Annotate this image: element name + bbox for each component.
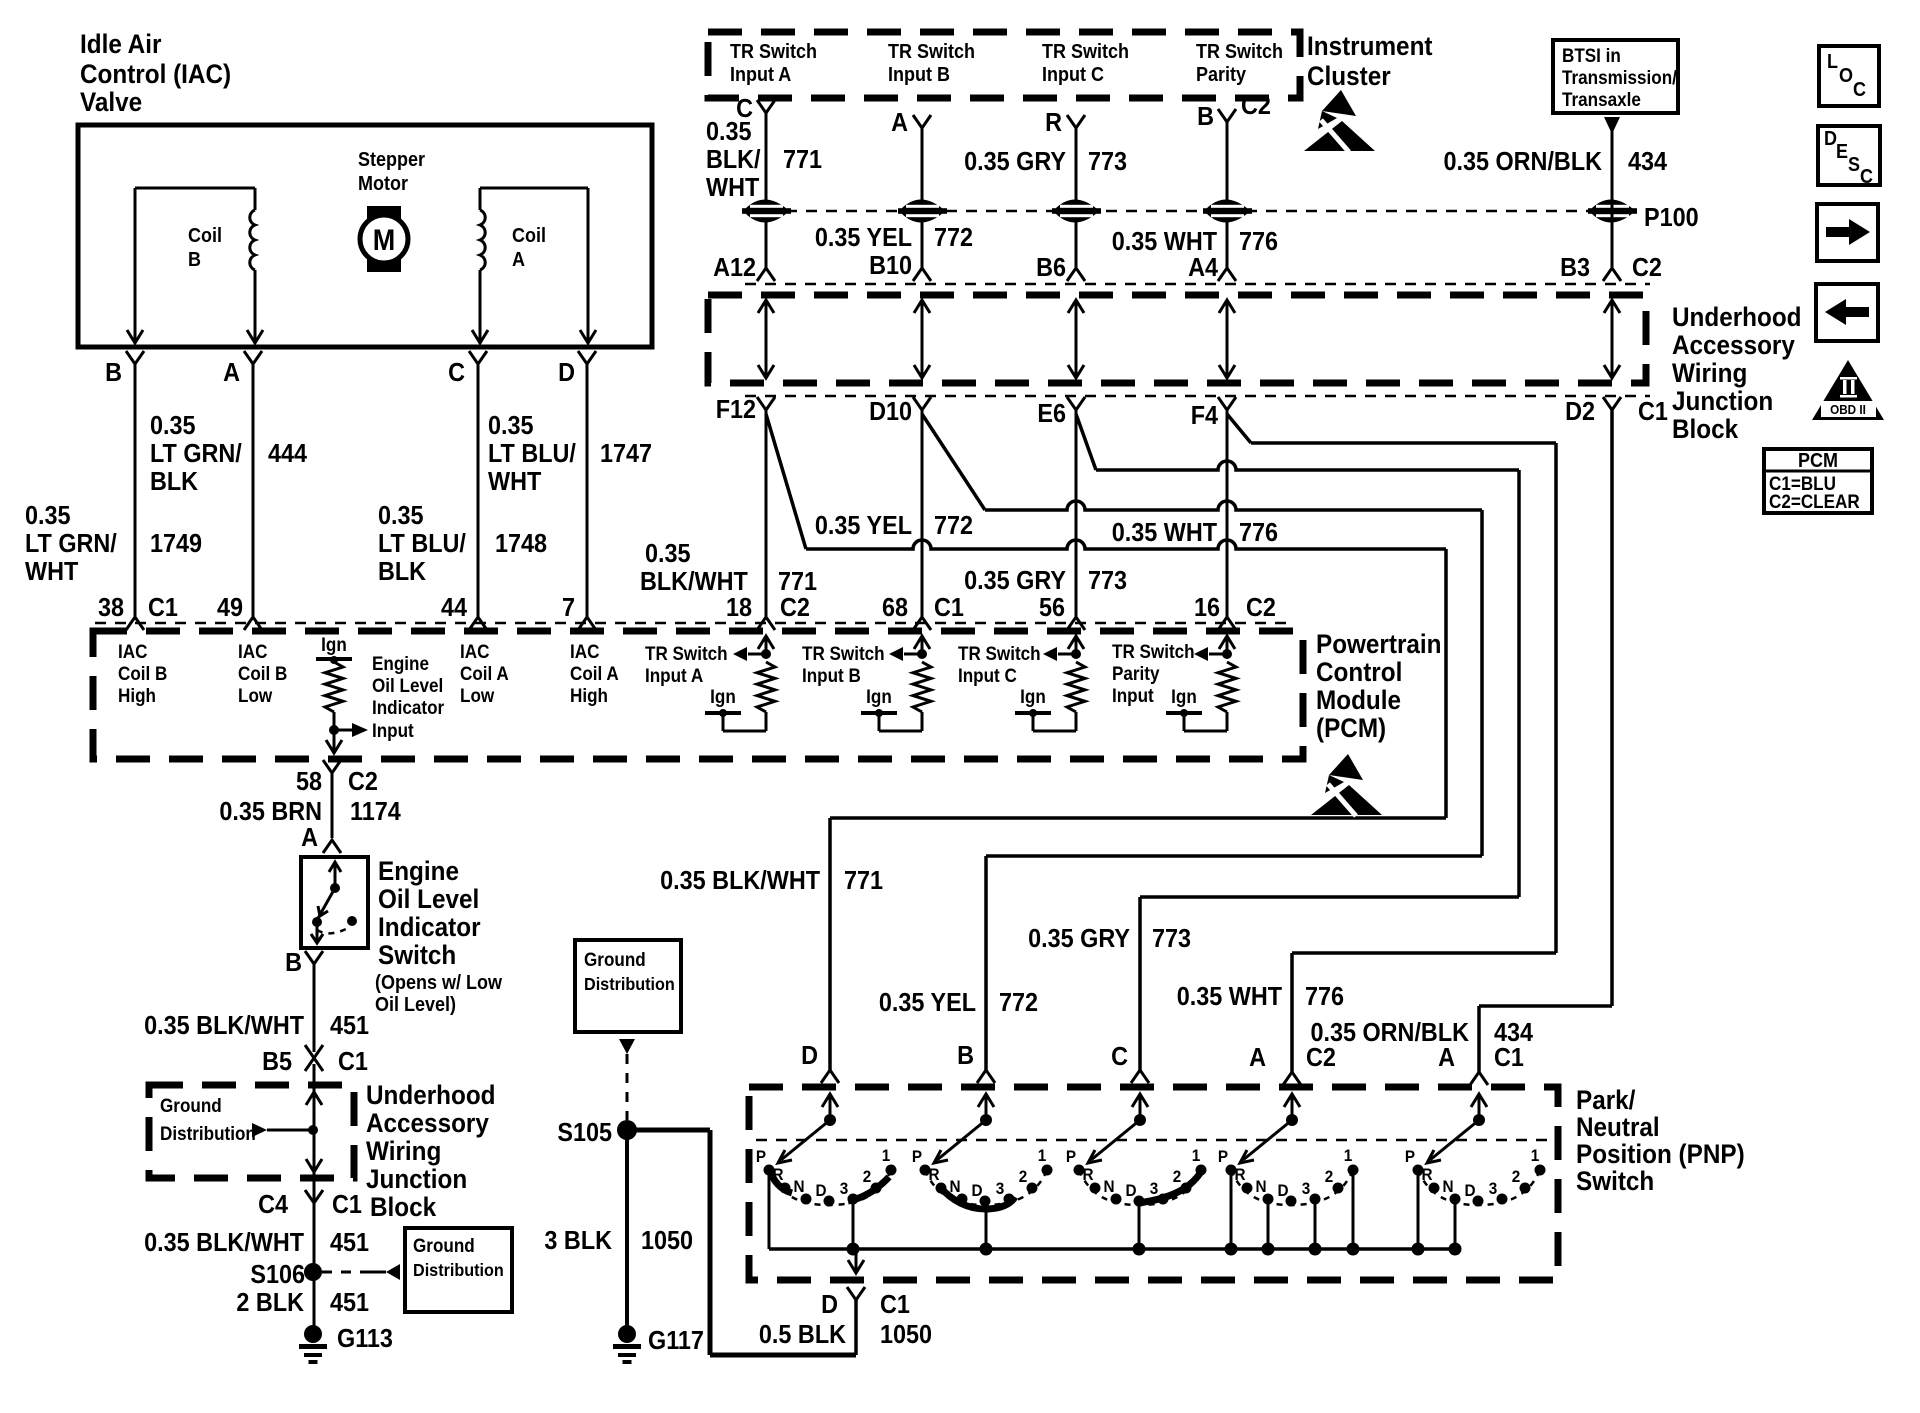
svg-text:68: 68 (882, 594, 908, 622)
svg-text:772: 772 (999, 989, 1038, 1017)
svg-text:Idle Air: Idle Air (80, 30, 161, 59)
svg-text:771: 771 (783, 146, 822, 174)
svg-text:High: High (570, 685, 608, 706)
coil B (135, 188, 255, 318)
svg-text:16: 16 (1194, 594, 1220, 622)
svg-text:Ground: Ground (584, 949, 646, 970)
svg-text:Control: Control (1316, 658, 1402, 687)
svg-text:1749: 1749 (150, 530, 202, 558)
svg-text:P100: P100 (1644, 204, 1699, 232)
svg-text:773: 773 (1088, 148, 1127, 176)
svg-text:R: R (1082, 1165, 1093, 1184)
svg-text:0.35 WHT: 0.35 WHT (1112, 228, 1217, 256)
svg-text:Position (PNP): Position (PNP) (1576, 1140, 1745, 1169)
cluster label TR Switch Input A (730, 41, 817, 86)
ground G113 (299, 1325, 393, 1364)
label 3 BLK 1050 (544, 1227, 693, 1255)
svg-text:Cluster: Cluster (1307, 62, 1391, 91)
cluster pin B (1197, 103, 1236, 131)
svg-text:58: 58 (296, 768, 322, 796)
svg-text:TR Switch: TR Switch (1196, 41, 1283, 63)
wire E6 to PCM pin 56 (1075, 410, 1078, 617)
svg-text:A: A (1249, 1044, 1266, 1072)
svg-text:1748: 1748 (495, 530, 547, 558)
label 0.35 BLK/WHT 451 (lower) (144, 1229, 369, 1257)
OBD II icon (1812, 360, 1884, 420)
svg-text:IAC: IAC (460, 641, 489, 662)
svg-text:434: 434 (1628, 148, 1667, 176)
PCM label IAC Coil B Low (238, 641, 287, 706)
svg-text:C1: C1 (1494, 1044, 1524, 1072)
svg-text:Indicator: Indicator (378, 913, 481, 942)
svg-text:LT GRN/: LT GRN/ (150, 440, 242, 468)
svg-text:49: 49 (217, 594, 243, 622)
svg-text:D: D (1125, 1181, 1136, 1200)
svg-text:1050: 1050 (880, 1321, 932, 1349)
svg-text:R: R (1045, 109, 1062, 137)
PNP pin A C1 (1438, 1044, 1524, 1085)
svg-text:Input B: Input B (888, 64, 950, 86)
connector D C1 (PNP ground) (821, 1287, 910, 1319)
svg-text:O: O (1839, 65, 1853, 87)
PNP switch contact set C (1066, 1094, 1207, 1256)
svg-text:C2: C2 (1241, 92, 1271, 120)
svg-text:Neutral: Neutral (1576, 1113, 1660, 1142)
svg-text:Oil Level): Oil Level) (375, 994, 456, 1016)
svg-text:Oil Level: Oil Level (378, 885, 479, 914)
wire F12 to PCM pin 18 (765, 410, 768, 617)
svg-text:0.35 GRY: 0.35 GRY (964, 148, 1066, 176)
svg-text:2: 2 (863, 1167, 872, 1186)
PCM label IAC Coil B High (118, 641, 167, 706)
wire IAC B to PCM pin 38 (134, 364, 137, 617)
Powertrain Control Module (PCM) title (1316, 630, 1442, 743)
switch pin B (285, 949, 323, 977)
svg-text:N: N (793, 1177, 804, 1196)
pin B10 (869, 252, 931, 281)
label 0.35 BLK/WHT 771 (left) (640, 540, 817, 596)
svg-text:Powertrain: Powertrain (1316, 630, 1442, 659)
junction block pass-through arrow (772) (914, 300, 930, 378)
PCM connector legend (1764, 449, 1872, 513)
ground G117 (613, 1325, 704, 1364)
ground distribution feed arrow (252, 1123, 318, 1137)
svg-text:Input: Input (1112, 685, 1154, 706)
svg-text:IAC: IAC (570, 641, 599, 662)
svg-text:Coil B: Coil B (118, 663, 167, 684)
pin D10 (869, 397, 931, 426)
svg-text:P: P (1405, 1147, 1415, 1166)
svg-text:1: 1 (1344, 1146, 1353, 1165)
svg-text:A: A (301, 824, 318, 852)
svg-text:1: 1 (882, 1146, 891, 1165)
cluster label TR Switch Input C (1042, 41, 1129, 86)
svg-text:S105: S105 (557, 1119, 612, 1147)
svg-text:3: 3 (1302, 1179, 1311, 1198)
svg-text:Input: Input (372, 720, 414, 741)
park/neutral position switch box (749, 1087, 1558, 1280)
svg-text:Coil B: Coil B (238, 663, 287, 684)
Instrument Cluster title (1307, 32, 1433, 91)
wire F4 to PCM pin 16 (1226, 410, 1229, 617)
LOC icon (1819, 46, 1879, 106)
labels 0.35 ORN/BLK 434 (PNP) (1310, 1019, 1533, 1047)
svg-text:Input B: Input B (802, 665, 861, 686)
svg-text:Engine: Engine (372, 653, 429, 674)
svg-text:Switch: Switch (378, 941, 456, 970)
svg-text:M: M (373, 224, 395, 258)
PCM TR switch input C group (958, 636, 1085, 731)
PCM TR switch input A group (645, 636, 775, 731)
svg-text:C2: C2 (1306, 1044, 1336, 1072)
svg-text:TR Switch: TR Switch (1042, 41, 1129, 63)
PCM label IAC Coil A Low (460, 641, 509, 706)
connector B5 C1 (262, 1045, 368, 1076)
svg-text:IAC: IAC (118, 641, 147, 662)
label 0.35 GRY 773 (mid) (964, 567, 1127, 595)
PNP switch contact set A (C1) (1405, 1094, 1546, 1256)
labels 0.35 GRY 773 (PNP) (1028, 925, 1191, 953)
svg-text:R: R (1234, 1165, 1245, 1184)
ESD symbol (instrument cluster) (1304, 90, 1375, 152)
svg-text:0.35 WHT: 0.35 WHT (1112, 519, 1217, 547)
svg-text:773: 773 (1152, 925, 1191, 953)
svg-text:WHT: WHT (706, 174, 759, 202)
pin F4 (1191, 397, 1236, 430)
pin B6 (1036, 254, 1085, 282)
Underhood Accessory Wiring Junction Block title (top) (1672, 303, 1802, 444)
PNP switch contact set B (912, 1094, 1053, 1256)
back arrow icon (1816, 284, 1878, 341)
Underhood Accessory Wiring Junction Block title (lower) (366, 1081, 496, 1222)
svg-text:BLK: BLK (378, 558, 426, 586)
svg-text:451: 451 (330, 1289, 369, 1317)
label 0.35 BLK/WHT 451 (upper) (144, 1012, 369, 1040)
svg-text:Switch: Switch (1576, 1167, 1654, 1196)
cluster label TR Switch Input B (888, 41, 975, 86)
wire cluster C to A12 (765, 113, 768, 268)
label 0.35 LT GRN/BLK 444 (150, 412, 307, 496)
svg-text:Coil: Coil (512, 225, 546, 247)
svg-text:C1: C1 (332, 1191, 362, 1219)
forward arrow icon (1817, 204, 1878, 261)
PNP pin D (801, 1042, 839, 1083)
svg-text:2 BLK: 2 BLK (236, 1289, 304, 1317)
svg-text:C1: C1 (1638, 398, 1668, 426)
svg-text:R: R (928, 1165, 939, 1184)
label 0.5 BLK 1050 (759, 1321, 932, 1349)
dashed wire to S105 (626, 1054, 629, 1120)
svg-text:P: P (912, 1147, 922, 1166)
svg-text:A: A (1438, 1044, 1455, 1072)
PCM pin 18 C2 (726, 594, 810, 630)
PCM oil level ign feed (316, 634, 352, 664)
svg-text:C: C (1860, 166, 1873, 188)
connector row dashed line (A12 row) (745, 283, 1650, 286)
svg-text:A: A (891, 109, 908, 137)
svg-text:776: 776 (1239, 228, 1278, 256)
svg-text:(Opens w/ Low: (Opens w/ Low (375, 972, 502, 994)
svg-text:0.35: 0.35 (645, 540, 691, 568)
svg-text:Ign: Ign (321, 634, 347, 655)
svg-text:A: A (223, 359, 240, 387)
svg-text:C2: C2 (348, 768, 378, 796)
label 0.35 BLK/WHT 771 (cluster) (706, 118, 822, 202)
oil level switch internals (311, 862, 357, 943)
IAC coil arrows to box edge (127, 318, 596, 343)
svg-text:N: N (1255, 1177, 1266, 1196)
svg-text:Input C: Input C (1042, 64, 1104, 86)
junction block pass-through arrow (451) (306, 1064, 322, 1203)
pin A12 (713, 254, 775, 282)
svg-text:Ign: Ign (1171, 686, 1197, 707)
DESC icon (1818, 126, 1880, 188)
svg-text:0.35: 0.35 (378, 502, 424, 530)
svg-text:TR Switch: TR Switch (802, 643, 885, 664)
svg-text:E6: E6 (1037, 400, 1066, 428)
PNP pin A C2 (1249, 1044, 1336, 1085)
pin B3 C2 (1560, 254, 1662, 282)
svg-text:0.35 GRY: 0.35 GRY (964, 567, 1066, 595)
svg-text:0.35 GRY: 0.35 GRY (1028, 925, 1130, 953)
S106 ground distribution reference (322, 1264, 400, 1280)
svg-text:S106: S106 (250, 1261, 305, 1289)
svg-text:Wiring: Wiring (1672, 359, 1747, 388)
junction block pass-through arrow (771) (758, 300, 774, 378)
svg-text:Transaxle: Transaxle (1562, 89, 1641, 110)
svg-text:D: D (1277, 1181, 1288, 1200)
wire 3 BLK 1050 to ground (625, 1130, 629, 1326)
pin 58 C2 (296, 760, 378, 796)
pin D2 C1 (1565, 397, 1668, 426)
svg-text:D: D (971, 1181, 982, 1200)
svg-text:LT GRN/: LT GRN/ (25, 530, 117, 558)
svg-text:P: P (756, 1147, 766, 1166)
PNP internal linkage dashed line (756, 1139, 1550, 1142)
svg-text:R: R (1421, 1165, 1432, 1184)
svg-text:C2: C2 (1632, 254, 1662, 282)
svg-text:Block: Block (1672, 415, 1739, 444)
svg-text:Junction: Junction (366, 1165, 467, 1194)
svg-text:1050: 1050 (641, 1227, 693, 1255)
wire 0.5 BLK 1050 (854, 1300, 858, 1355)
wire IAC A to PCM pin 49 (252, 364, 255, 617)
svg-text:0.35: 0.35 (150, 412, 196, 440)
svg-text:D: D (1824, 128, 1837, 150)
svg-text:0.35 BRN: 0.35 BRN (219, 798, 322, 826)
svg-text:Transmission/: Transmission/ (1562, 67, 1677, 88)
svg-text:BTSI in: BTSI in (1562, 45, 1621, 66)
svg-text:0.35 YEL: 0.35 YEL (879, 989, 976, 1017)
svg-text:P: P (1066, 1147, 1076, 1166)
svg-text:0.35 ORN/BLK: 0.35 ORN/BLK (1443, 148, 1602, 176)
underhood junction block box (lower) (149, 1085, 354, 1178)
svg-text:Wiring: Wiring (366, 1137, 441, 1166)
label 2 BLK 451 (236, 1289, 369, 1317)
svg-text:Input C: Input C (958, 665, 1017, 686)
PCM pin 68 C1 (882, 594, 964, 630)
wire BLK/WHT 451 (upper) (313, 964, 316, 1052)
svg-text:TR Switch: TR Switch (645, 643, 728, 664)
label 0.35 LT BLU/WHT 1747 (488, 412, 652, 496)
svg-text:3: 3 (840, 1179, 849, 1198)
labels 0.35 BLK/WHT 771 (PNP) (660, 867, 883, 895)
label 0.35 YEL 772 (cluster) (815, 224, 973, 252)
svg-text:Park/: Park/ (1576, 1086, 1635, 1115)
svg-text:TR Switch: TR Switch (958, 643, 1041, 664)
svg-text:1: 1 (1531, 1146, 1540, 1165)
svg-text:3: 3 (1489, 1179, 1498, 1198)
svg-text:44: 44 (441, 594, 467, 622)
svg-text:B5: B5 (262, 1048, 292, 1076)
PCM oil level output arrow (326, 740, 342, 753)
svg-text:S: S (1848, 154, 1860, 176)
switch pin A (301, 824, 341, 853)
pin F12 (716, 396, 775, 424)
svg-text:C: C (448, 359, 465, 387)
svg-text:Ign: Ign (866, 686, 892, 707)
svg-text:0.35: 0.35 (488, 412, 534, 440)
svg-text:2: 2 (1512, 1167, 1521, 1186)
wire cluster B to A4 (1226, 122, 1229, 268)
PCM engine oil level indicator input node (329, 712, 368, 750)
svg-text:BLK/WHT: BLK/WHT (640, 568, 748, 596)
svg-text:C1: C1 (880, 1291, 910, 1319)
svg-text:C1: C1 (338, 1048, 368, 1076)
engine oil level indicator switch box (301, 857, 368, 948)
svg-text:0.5 BLK: 0.5 BLK (759, 1321, 846, 1349)
svg-text:PCM: PCM (1798, 450, 1838, 472)
svg-text:Control (IAC): Control (IAC) (80, 60, 231, 89)
PCM label Engine Oil Level Indicator Input (372, 653, 444, 741)
underhood accessory wiring junction block box (top) (708, 295, 1646, 383)
svg-text:771: 771 (778, 568, 817, 596)
svg-text:444: 444 (268, 440, 307, 468)
svg-text:Coil: Coil (188, 225, 222, 247)
svg-text:Coil A: Coil A (460, 663, 509, 684)
svg-text:D10: D10 (869, 398, 912, 426)
svg-text:Module: Module (1316, 686, 1401, 715)
PNP common bus (769, 1199, 1455, 1249)
svg-text:Underhood: Underhood (366, 1081, 496, 1110)
svg-text:Engine: Engine (378, 857, 459, 886)
in-line connector (wire 773) (1052, 200, 1101, 223)
svg-text:2: 2 (1325, 1167, 1334, 1186)
svg-text:Low: Low (460, 685, 495, 706)
svg-text:1: 1 (1038, 1146, 1047, 1165)
svg-text:C: C (1111, 1043, 1128, 1071)
wire D10 to PCM pin 68 (921, 410, 924, 617)
label 0.35 YEL 772 (mid) (815, 512, 973, 540)
Engine Oil Level Indicator Switch title (375, 857, 502, 1016)
svg-text:OBD II: OBD II (1830, 402, 1866, 417)
terminal D (558, 351, 596, 387)
labels 0.35 YEL 772 (PNP) (879, 989, 1038, 1017)
svg-text:C2: C2 (780, 594, 810, 622)
svg-text:0.35 WHT: 0.35 WHT (1177, 983, 1282, 1011)
PCM box (93, 631, 1303, 759)
junction block pass-through arrow (434) (1604, 300, 1620, 378)
svg-text:C1: C1 (148, 594, 178, 622)
svg-text:0.35: 0.35 (706, 118, 752, 146)
PNP switch contact set A (C2) (1218, 1094, 1360, 1256)
svg-text:0.35 BLK/WHT: 0.35 BLK/WHT (660, 867, 820, 895)
svg-text:2: 2 (1019, 1167, 1028, 1186)
wire ORN/BLK 434 D2 to PNP pin A C1 (1479, 410, 1612, 1072)
svg-text:D: D (815, 1181, 826, 1200)
wire BTSI to junction block (ORN/BLK 434) (1611, 117, 1614, 268)
label 0.35 LT BLU/BLK 1748 (378, 502, 547, 586)
wire BLK/WHT 771 branch F12 to PNP pin D (766, 414, 1446, 1070)
IAC valve title (80, 30, 231, 117)
svg-text:773: 773 (1088, 567, 1127, 595)
svg-text:Underhood: Underhood (1672, 303, 1802, 332)
svg-text:3: 3 (996, 1179, 1005, 1198)
stepper motor M (358, 149, 426, 272)
svg-text:D: D (801, 1042, 818, 1070)
svg-text:A: A (512, 249, 525, 271)
pin A4 (1188, 254, 1236, 282)
svg-text:18: 18 (726, 594, 752, 622)
connector P100 (1588, 200, 1699, 233)
BTSI box (1553, 40, 1678, 113)
svg-text:B3: B3 (1560, 254, 1590, 282)
connector row dashed line (F12 row) (745, 395, 1650, 398)
svg-text:451: 451 (330, 1229, 369, 1257)
PCM pin 16 C2 (1194, 594, 1276, 630)
PCM pin 7 (562, 594, 596, 630)
svg-text:38: 38 (98, 594, 124, 622)
svg-text:7: 7 (562, 594, 575, 622)
svg-text:56: 56 (1039, 594, 1065, 622)
PCM pin 38 C1 (98, 594, 178, 630)
svg-text:C2: C2 (1246, 594, 1276, 622)
svg-text:(PCM): (PCM) (1316, 714, 1386, 743)
splice S105 (557, 1119, 637, 1147)
svg-text:LT BLU/: LT BLU/ (378, 530, 466, 558)
svg-text:N: N (1442, 1177, 1453, 1196)
svg-text:G117: G117 (648, 1327, 704, 1355)
svg-text:D2: D2 (1565, 398, 1595, 426)
wire IAC D to PCM pin 7 (586, 364, 589, 617)
svg-text:D: D (558, 359, 575, 387)
PNP title (1576, 1086, 1745, 1196)
svg-text:Ign: Ign (710, 686, 736, 707)
ground distribution box (S106) (405, 1228, 512, 1312)
svg-text:C4: C4 (258, 1191, 288, 1219)
svg-text:C2=CLEAR: C2=CLEAR (1769, 491, 1860, 512)
label 0.35 ORN/BLK 434 (1443, 148, 1667, 176)
terminal A (223, 351, 262, 387)
in-line connector (wire 776) (1203, 200, 1252, 223)
wire cluster R to B6 (1075, 128, 1078, 268)
PCM pin row dashed line (95, 622, 1290, 625)
label 0.35 BRN 1174 (219, 798, 401, 826)
svg-text:TR Switch: TR Switch (730, 41, 817, 63)
svg-text:776: 776 (1239, 519, 1278, 547)
svg-text:E: E (1836, 141, 1848, 163)
svg-text:C: C (1853, 79, 1866, 101)
terminal C (448, 351, 487, 387)
svg-text:Input A: Input A (730, 64, 792, 86)
ESD symbol (PCM) (1311, 754, 1382, 816)
PNP switch contact set D (756, 1094, 897, 1256)
wire 2 BLK 451 to ground (313, 1203, 316, 1326)
svg-text:0.35 YEL: 0.35 YEL (815, 224, 912, 252)
wire 0.5 BLK 1050 (S105 to PNP) (627, 1130, 856, 1355)
svg-text:0.35 YEL: 0.35 YEL (815, 512, 912, 540)
svg-text:D: D (821, 1291, 838, 1319)
